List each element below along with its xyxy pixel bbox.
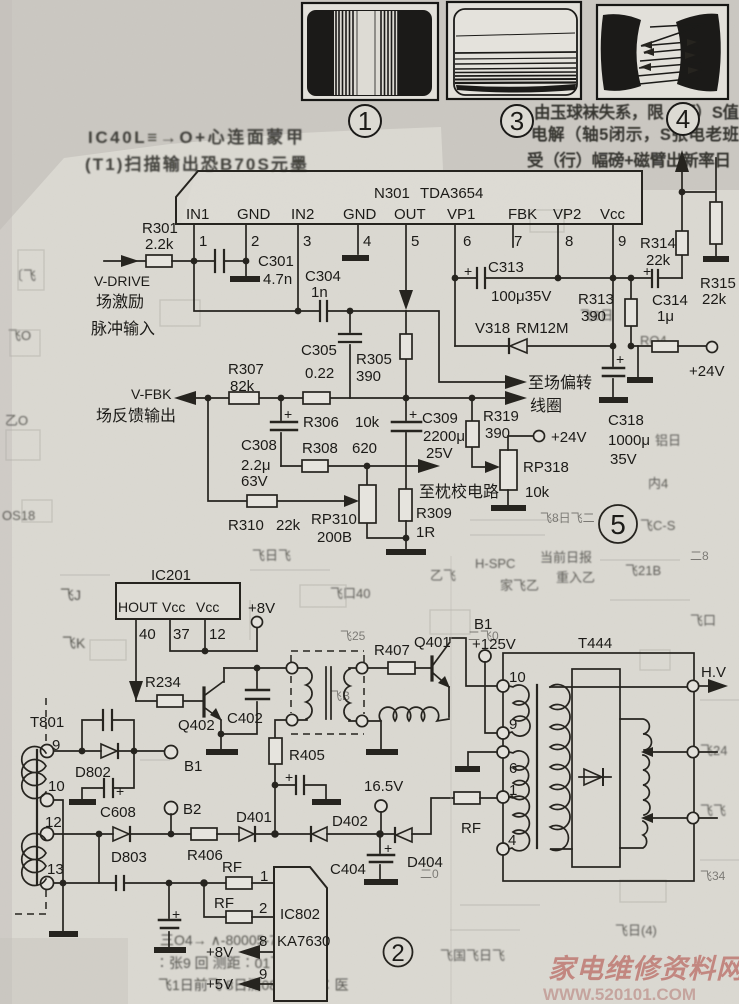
svg-text:+: + bbox=[172, 906, 180, 922]
svg-text:C301: C301 bbox=[258, 253, 294, 270]
wire taps right bbox=[699, 752, 717, 818]
svg-text:VP2: VP2 bbox=[553, 206, 581, 223]
svg-text:飞日(4): 飞日(4) bbox=[615, 923, 657, 938]
svg-text:13: 13 bbox=[47, 861, 64, 878]
arrow R314 up bbox=[675, 150, 689, 172]
T801 terminal 10 bbox=[41, 794, 54, 807]
T444 winding 6-1 bbox=[509, 751, 529, 800]
ground C403 bbox=[312, 799, 341, 805]
svg-text:390: 390 bbox=[581, 308, 606, 325]
wire pin9 bbox=[612, 224, 614, 346]
svg-text:1: 1 bbox=[358, 106, 372, 136]
T444 terminal 4 bbox=[497, 843, 509, 855]
node term13-gnd bbox=[60, 880, 67, 887]
svg-text:R301: R301 bbox=[142, 220, 178, 237]
node D802 anode bbox=[79, 748, 86, 755]
IC802 box bbox=[274, 867, 330, 1001]
svg-text:飞口40: 飞口40 bbox=[330, 586, 370, 601]
svg-text:铝日: 铝日 bbox=[655, 433, 681, 448]
svg-text:RF: RF bbox=[214, 895, 234, 912]
svg-text:H.V: H.V bbox=[701, 664, 726, 681]
ground Q402 bbox=[206, 749, 238, 755]
wire pin37 bbox=[170, 619, 257, 651]
svg-text:37: 37 bbox=[173, 626, 190, 643]
node fb-R310 bbox=[205, 395, 212, 402]
svg-text:2: 2 bbox=[391, 940, 404, 967]
svg-text:C313: C313 bbox=[488, 259, 524, 276]
terminal HV out bbox=[687, 680, 698, 691]
node R405 bottom bbox=[272, 782, 279, 789]
svg-text:+: + bbox=[384, 840, 392, 856]
svg-text:+8V: +8V bbox=[206, 944, 233, 961]
capacitor C403 electrolytic bbox=[275, 769, 326, 799]
svg-text:4: 4 bbox=[508, 832, 516, 849]
svg-text:R309: R309 bbox=[416, 505, 452, 522]
svg-text:RF: RF bbox=[461, 820, 481, 837]
node C402 bottom bbox=[218, 731, 225, 738]
arrow pincushion bbox=[418, 459, 440, 473]
op-amp IC N301 TDA3654 box bbox=[176, 171, 642, 224]
svg-text:D401: D401 bbox=[236, 809, 272, 826]
potentiometer RP318 bbox=[500, 436, 569, 505]
capacitor lower rail bbox=[116, 876, 226, 890]
svg-text:9: 9 bbox=[259, 966, 267, 983]
svg-text:飞日飞: 飞日飞 bbox=[252, 548, 291, 563]
capacitor C301 bbox=[194, 250, 294, 288]
svg-text:35V: 35V bbox=[610, 451, 637, 468]
T444 core bbox=[536, 685, 538, 848]
diode D401 bbox=[236, 809, 312, 841]
driver transformer dashed shield bbox=[291, 651, 364, 734]
node RP310 bottom join bbox=[403, 535, 410, 542]
T444 terminal 6 bbox=[497, 746, 509, 758]
node C308 top bbox=[278, 395, 285, 402]
svg-text:1: 1 bbox=[260, 868, 268, 885]
resistor R307 bbox=[228, 361, 264, 404]
svg-text:R310: R310 bbox=[228, 517, 264, 534]
svg-text:OS18: OS18 bbox=[2, 508, 35, 523]
node pin8 bbox=[555, 275, 562, 282]
wire term10 down bbox=[54, 800, 63, 931]
T444 terminal 10 bbox=[497, 680, 509, 692]
svg-text:R319: R319 bbox=[483, 408, 519, 425]
svg-text:B2: B2 bbox=[183, 801, 201, 818]
wire R405 node down bbox=[274, 785, 276, 834]
node electro cap top bbox=[166, 880, 173, 887]
svg-text:6: 6 bbox=[463, 233, 471, 250]
node R319 top bbox=[469, 395, 476, 402]
svg-text:至场偏转: 至场偏转 bbox=[528, 374, 592, 392]
svg-text:200B: 200B bbox=[317, 529, 352, 546]
capacitor C404 bbox=[330, 834, 394, 879]
svg-text:100μ35V: 100μ35V bbox=[491, 288, 551, 305]
svg-text:飞21B: 飞21B bbox=[625, 563, 661, 578]
svg-text:+8V: +8V bbox=[248, 600, 275, 617]
svg-text:40: 40 bbox=[139, 626, 156, 643]
svg-text:5: 5 bbox=[411, 233, 419, 250]
capacitor C313 bbox=[455, 259, 558, 305]
svg-text:D402: D402 bbox=[332, 813, 368, 830]
node C402 top bbox=[254, 665, 261, 672]
node pin3 bbox=[295, 308, 302, 315]
svg-text:OUT: OUT bbox=[394, 206, 426, 223]
svg-text:12: 12 bbox=[45, 814, 62, 831]
resistor RF2 bbox=[204, 883, 274, 923]
T444 terminal 1 bbox=[497, 791, 509, 803]
wire pin8 bbox=[557, 224, 559, 278]
svg-text:T801: T801 bbox=[30, 714, 64, 731]
diode D802 bbox=[75, 744, 165, 781]
svg-text:1: 1 bbox=[199, 233, 207, 250]
node rail x99 bbox=[96, 831, 103, 838]
svg-text:RP318: RP318 bbox=[523, 459, 569, 476]
svg-text:R314: R314 bbox=[640, 235, 676, 252]
node pin9 diode line bbox=[610, 343, 617, 350]
svg-text:2200μ: 2200μ bbox=[423, 428, 465, 445]
wire to +24V resistor bbox=[631, 345, 652, 347]
svg-text:4.7n: 4.7n bbox=[263, 271, 292, 288]
diode D803 bbox=[111, 827, 191, 866]
terminal +24V bbox=[707, 342, 718, 353]
svg-text:D803: D803 bbox=[111, 849, 147, 866]
svg-text:乙O: 乙O bbox=[5, 413, 28, 428]
svg-text:HOUT: HOUT bbox=[118, 599, 158, 615]
svg-text:R306: R306 bbox=[303, 414, 339, 431]
wire pin4 bbox=[357, 224, 359, 254]
capacitor C304 bbox=[298, 268, 350, 321]
svg-text:H-SPC: H-SPC bbox=[475, 556, 515, 571]
svg-text:重入乙: 重入乙 bbox=[556, 570, 595, 585]
driver transformer right winding bbox=[344, 662, 368, 726]
svg-text:5: 5 bbox=[610, 509, 626, 540]
node R313 top bbox=[628, 275, 635, 282]
potentiometer RP310 bbox=[311, 466, 403, 546]
svg-text:受（行）幅磅+磁臂出新率日: 受（行）幅磅+磁臂出新率日 bbox=[527, 150, 731, 170]
diode D402 bbox=[311, 813, 380, 841]
resistor R301 bbox=[146, 255, 172, 267]
IC201 box bbox=[116, 567, 240, 619]
svg-text:当前日报: 当前日报 bbox=[540, 550, 592, 565]
T801 winding 9-10 bbox=[22, 747, 46, 799]
ground pin4 bbox=[342, 255, 369, 261]
capacitor C318 bbox=[603, 346, 650, 468]
resistor RF T444 bbox=[454, 792, 497, 837]
svg-text:内4: 内4 bbox=[648, 476, 668, 491]
terminal B1 out bbox=[165, 746, 178, 759]
svg-text:82k: 82k bbox=[230, 378, 255, 395]
node 16.5V join bbox=[376, 830, 384, 838]
capacitor C308 bbox=[241, 398, 297, 490]
svg-text:飞K: 飞K bbox=[62, 635, 86, 651]
node B2 rail bbox=[168, 831, 175, 838]
svg-text:C309: C309 bbox=[422, 410, 458, 427]
svg-text:V-DRIVE: V-DRIVE bbox=[94, 273, 150, 289]
svg-text:B1: B1 bbox=[184, 758, 202, 775]
svg-text:R407: R407 bbox=[374, 642, 410, 659]
resistor R314 bbox=[640, 155, 688, 278]
svg-text:8: 8 bbox=[565, 233, 573, 250]
svg-text:V318: V318 bbox=[475, 320, 510, 337]
arrow H.V bbox=[699, 685, 710, 687]
resistor RF1 bbox=[222, 859, 274, 889]
svg-text:22k: 22k bbox=[646, 252, 671, 269]
svg-text:D802: D802 bbox=[75, 764, 111, 781]
svg-text:飞8日飞二: 飞8日飞二 bbox=[540, 511, 595, 525]
svg-text:R405: R405 bbox=[289, 747, 325, 764]
T444 primary winding 10-9 bbox=[509, 685, 530, 736]
svg-text:+: + bbox=[284, 406, 292, 422]
svg-text:12: 12 bbox=[209, 626, 226, 643]
node pin2 bbox=[243, 258, 250, 265]
svg-text:至枕校电路: 至枕校电路 bbox=[419, 483, 499, 501]
driver transformer left winding bbox=[286, 662, 312, 725]
T801 terminal 9 bbox=[41, 745, 54, 758]
wire HV top bbox=[550, 686, 688, 688]
T801 terminal 12 bbox=[41, 828, 54, 841]
svg-text:25V: 25V bbox=[426, 445, 453, 462]
svg-text:63V: 63V bbox=[241, 473, 268, 490]
T444 terminal 9 bbox=[497, 727, 509, 739]
T801 terminal 13 bbox=[41, 877, 54, 890]
svg-text:IN1: IN1 bbox=[186, 206, 209, 223]
svg-text:飞34: 飞34 bbox=[700, 869, 726, 883]
ground pin2 bbox=[230, 276, 260, 282]
arrow input bbox=[121, 255, 139, 267]
svg-text:家电维修资料网: 家电维修资料网 bbox=[548, 954, 739, 984]
svg-text:R308: R308 bbox=[302, 440, 338, 457]
ground stub right bbox=[637, 346, 639, 377]
svg-text:+24V: +24V bbox=[551, 429, 586, 446]
wire collector rail bbox=[224, 667, 287, 669]
svg-text:VP1: VP1 bbox=[447, 206, 475, 223]
svg-text:R315: R315 bbox=[700, 275, 736, 292]
capacitor C309 bbox=[392, 398, 465, 489]
ground RP318 bbox=[491, 505, 526, 511]
svg-text:T444: T444 bbox=[578, 635, 612, 652]
T444 tertiary winding right bbox=[620, 719, 687, 848]
arrow pin5 down bbox=[399, 290, 413, 310]
diode D404 bbox=[380, 798, 454, 871]
wire B2 down bbox=[170, 814, 172, 834]
wire pin1 bbox=[194, 224, 298, 311]
svg-text:飞飞: 飞飞 bbox=[700, 803, 726, 818]
svg-text:3: 3 bbox=[303, 233, 311, 250]
svg-text:22k: 22k bbox=[702, 291, 727, 308]
resistor R313 bbox=[578, 278, 637, 346]
node D401-D402-R405 bbox=[271, 830, 279, 838]
wire to pincushion bbox=[367, 465, 418, 467]
resistor R405 bbox=[269, 720, 325, 785]
arrow hout down bbox=[129, 681, 143, 701]
svg-text:RP310: RP310 bbox=[311, 511, 357, 528]
svg-text:脉冲输入: 脉冲输入 bbox=[91, 320, 155, 338]
svg-text:由玉球袜失系，限（行）S值: 由玉球袜失系，限（行）S值 bbox=[534, 102, 739, 122]
resistor R406 bbox=[187, 828, 239, 864]
CRT screen photo 1 frame bbox=[302, 3, 438, 100]
svg-text:家飞乙: 家飞乙 bbox=[500, 578, 539, 593]
svg-text:V-FBK: V-FBK bbox=[131, 386, 172, 402]
resistor unlabeled +24V bbox=[652, 341, 678, 352]
svg-text:R307: R307 bbox=[228, 361, 264, 378]
svg-text:C305: C305 bbox=[301, 342, 337, 359]
bleed-through text top-left (mirrored) bbox=[85, 127, 307, 174]
circled number 5 bbox=[599, 505, 637, 543]
svg-text:场激励: 场激励 bbox=[96, 293, 144, 311]
svg-text:R234: R234 bbox=[145, 674, 181, 691]
capacitor C608 bbox=[82, 751, 136, 821]
svg-text:16.5V: 16.5V bbox=[364, 778, 403, 795]
svg-text:+: + bbox=[285, 769, 293, 785]
T801 winding 12-13 bbox=[22, 834, 46, 886]
transformer T444 outline bbox=[503, 635, 694, 881]
wire HOUT pin40 bbox=[135, 619, 137, 701]
node R313 bottom bbox=[628, 343, 635, 350]
svg-text:+: + bbox=[116, 783, 124, 799]
capacitor C305 bbox=[301, 311, 361, 398]
wire V-DRIVE input bbox=[104, 260, 146, 262]
resistor R234 bbox=[136, 674, 203, 707]
svg-text:D404: D404 bbox=[407, 854, 443, 871]
wire pin5 bbox=[405, 224, 407, 305]
svg-text:22k: 22k bbox=[276, 517, 301, 534]
svg-text:3: 3 bbox=[510, 106, 524, 136]
svg-text:8: 8 bbox=[259, 933, 267, 950]
wire pin7 stub bbox=[512, 224, 514, 247]
node R308-RP310 bbox=[364, 463, 371, 470]
svg-text:飞J: 飞J bbox=[60, 587, 81, 603]
ground T444 pin6 bbox=[468, 752, 497, 766]
circled number 1 bbox=[349, 105, 381, 137]
emitter choke coil bbox=[368, 707, 449, 749]
terminal B2 bbox=[165, 802, 178, 815]
wire pin2 bbox=[245, 224, 247, 276]
svg-text:620: 620 bbox=[352, 440, 377, 457]
svg-text:飞口: 飞口 bbox=[690, 613, 716, 628]
svg-text:场反馈输出: 场反馈输出 bbox=[96, 407, 176, 425]
svg-text:C304: C304 bbox=[305, 268, 341, 285]
resistor R306 bbox=[303, 392, 380, 431]
T444 winding 1-4 bbox=[509, 796, 530, 851]
capacitor across D802 bbox=[82, 710, 134, 751]
ground C404 bbox=[364, 879, 398, 885]
svg-text:+5V: +5V bbox=[206, 976, 233, 993]
wire term12 rail bbox=[54, 833, 113, 835]
circled number 4 bbox=[667, 103, 699, 135]
node pin6-vcc bbox=[452, 275, 459, 282]
svg-text:4: 4 bbox=[363, 233, 371, 250]
svg-text:1000μ: 1000μ bbox=[608, 432, 650, 449]
svg-text:+: + bbox=[464, 263, 472, 279]
svg-text:2: 2 bbox=[251, 233, 259, 250]
svg-text:C608: C608 bbox=[100, 804, 136, 821]
svg-text:IC802: IC802 bbox=[280, 906, 320, 923]
svg-text:Vcc: Vcc bbox=[162, 599, 185, 615]
terminal tap2 bbox=[687, 746, 698, 757]
wire term13 rail bbox=[54, 882, 116, 884]
wire pin3 bbox=[297, 224, 299, 311]
svg-text:4: 4 bbox=[676, 104, 690, 134]
CRT screen photo 4 frame bbox=[597, 5, 728, 99]
svg-text:390: 390 bbox=[485, 425, 510, 442]
svg-text:R305: R305 bbox=[356, 351, 392, 368]
node pin12-37 bbox=[202, 648, 209, 655]
svg-text:C308: C308 bbox=[241, 437, 277, 454]
svg-text:IC201: IC201 bbox=[151, 567, 191, 584]
svg-text:Vcc: Vcc bbox=[600, 206, 626, 223]
resistor R407 bbox=[368, 642, 431, 674]
ground R315 bbox=[703, 256, 729, 262]
arrow R319 wiper bbox=[485, 461, 500, 473]
node C305 top bbox=[347, 308, 354, 315]
resistor R305 bbox=[356, 311, 412, 398]
svg-text:Vcc: Vcc bbox=[196, 599, 219, 615]
node pin1-input bbox=[191, 258, 198, 265]
svg-text:2: 2 bbox=[259, 900, 267, 917]
svg-text:10k: 10k bbox=[355, 414, 380, 431]
faint bleed text scattered bbox=[2, 268, 727, 963]
node D802 cathode bbox=[131, 748, 138, 755]
svg-text:FBK: FBK bbox=[508, 206, 537, 223]
arrow to deflection coil upper bbox=[505, 375, 527, 389]
svg-text:RM12M: RM12M bbox=[516, 320, 569, 337]
wire vcc rail to C314 bbox=[558, 277, 652, 279]
svg-text:0.22: 0.22 bbox=[305, 365, 334, 382]
ground choke bbox=[366, 749, 398, 755]
transistor Q402 bbox=[178, 668, 224, 749]
svg-text:Q402: Q402 bbox=[178, 717, 215, 734]
svg-text:WWW.520101.COM: WWW.520101.COM bbox=[543, 985, 696, 1004]
svg-text:10k: 10k bbox=[525, 484, 550, 501]
terminal +24V RP318 bbox=[534, 431, 545, 442]
terminal tap3 bbox=[687, 812, 698, 823]
svg-text:+125V: +125V bbox=[472, 636, 516, 653]
svg-text:+24V: +24V bbox=[689, 363, 724, 380]
svg-text:RF: RF bbox=[222, 859, 242, 876]
wire V-FBK rail bbox=[178, 397, 508, 399]
svg-text:1μ: 1μ bbox=[657, 308, 674, 325]
transformer T801 bbox=[14, 698, 64, 914]
node RF branch bbox=[200, 879, 208, 887]
svg-text:C318: C318 bbox=[608, 412, 644, 429]
svg-text:Q401: Q401 bbox=[414, 634, 451, 651]
wire pin6 bbox=[454, 224, 456, 346]
HV rectifier box bbox=[572, 669, 620, 867]
svg-text:1n: 1n bbox=[311, 284, 328, 301]
driver transformer core bbox=[326, 667, 331, 719]
svg-text:390: 390 bbox=[356, 368, 381, 385]
resistor R319 bbox=[466, 398, 519, 467]
svg-text:电解（轴5闭示，S张电老班: 电解（轴5闭示，S张电老班 bbox=[531, 124, 739, 144]
ground C309 R309 bbox=[386, 549, 426, 555]
ground electro bbox=[154, 947, 186, 953]
electrolytic capacitor lower bbox=[159, 883, 180, 947]
svg-text:乙飞: 乙飞 bbox=[430, 568, 456, 583]
resistor R315 bbox=[682, 158, 736, 308]
svg-text:2.2k: 2.2k bbox=[145, 236, 174, 253]
node R305 bottom bbox=[403, 395, 410, 402]
CRT screen photo 3 frame bbox=[447, 2, 581, 99]
svg-text:C404: C404 bbox=[330, 861, 366, 878]
svg-text:IN2: IN2 bbox=[291, 206, 314, 223]
svg-text:TDA3654: TDA3654 bbox=[420, 185, 483, 202]
svg-text:C402: C402 bbox=[227, 710, 263, 727]
wire x99 down bbox=[98, 834, 100, 883]
resistor R309 bbox=[399, 489, 452, 549]
svg-text:飞24: 飞24 bbox=[700, 743, 727, 758]
svg-text:R406: R406 bbox=[187, 847, 223, 864]
circled number 2 bbox=[384, 938, 413, 968]
svg-text:10: 10 bbox=[48, 778, 65, 795]
